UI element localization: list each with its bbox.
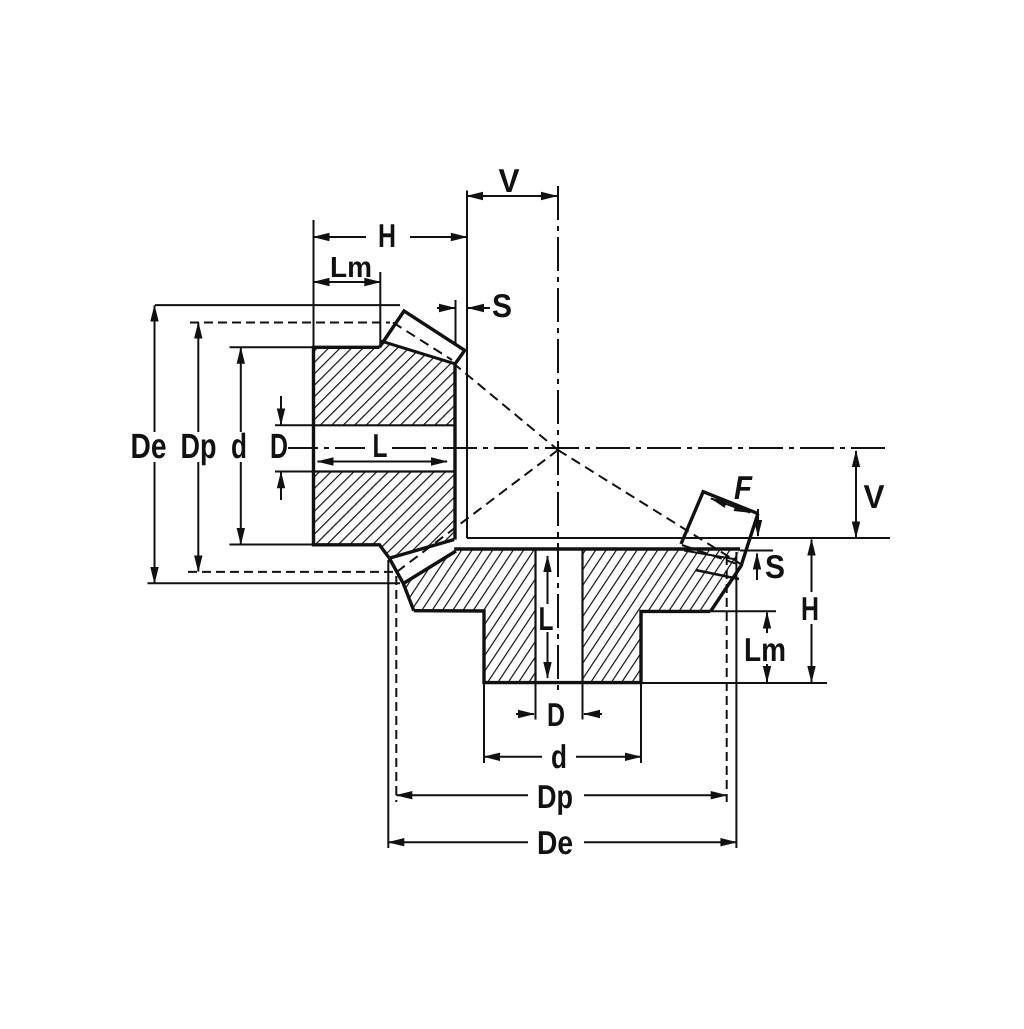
dimension D bottom arrows [516, 696, 602, 733]
pitch cone dashed line apex to SW [398, 450, 558, 571]
svg-text:S: S [492, 287, 512, 324]
extension lines d left [230, 346, 314, 348]
svg-text:L: L [539, 600, 554, 637]
gear hatched body [403, 549, 741, 683]
dimension d left [231, 348, 247, 544]
svg-text:Dp: Dp [537, 778, 573, 815]
dimension H top [314, 217, 467, 254]
dimension V right [856, 451, 885, 538]
extension lines D bottom [535, 683, 537, 720]
pinion hatched body [314, 341, 456, 558]
svg-text:V: V [499, 162, 520, 199]
extension line x467 [466, 191, 468, 539]
gear outline [414, 514, 758, 683]
dimension S right arrows [757, 509, 785, 585]
dimension Dp left [181, 323, 217, 572]
dimension Lm right [744, 613, 786, 683]
extension lines De left [155, 304, 400, 306]
pitch cone dashed line pinion tooth [393, 323, 452, 361]
extension lines Dp dashed left [190, 322, 390, 324]
extension lines D left [275, 424, 314, 426]
dimension De left [131, 306, 167, 584]
pitch cone dashed line apex to SE [558, 450, 747, 568]
extension lines d bottom [483, 683, 485, 763]
gear bore edges [536, 549, 583, 683]
svg-text:L: L [373, 427, 388, 464]
gear face extension right [740, 550, 773, 552]
dimension S top arrows [437, 287, 512, 324]
pinion outline [314, 311, 465, 558]
mesh zone gear tooth outline [389, 540, 456, 611]
pinion tooth root line [381, 341, 455, 364]
pitch cone dashed line NW to apex [453, 363, 558, 450]
dimension Dp bottom [396, 778, 726, 815]
svg-text:d: d [551, 738, 567, 775]
hub bottom extension right [641, 682, 827, 684]
svg-text:F: F [734, 469, 753, 506]
dimension F [711, 469, 753, 513]
dimension L gear bore [539, 556, 554, 678]
svg-text:D: D [547, 696, 565, 733]
gear rim underside extension right [711, 610, 776, 612]
svg-text:Lm: Lm [744, 631, 786, 668]
dimension V top [467, 162, 557, 199]
svg-text:V: V [864, 478, 885, 515]
extension line pinion back face x455.5 [455, 300, 457, 345]
svg-text:De: De [537, 824, 573, 861]
svg-text:H: H [378, 217, 396, 254]
dimension H right [801, 540, 819, 683]
svg-text:Lm: Lm [330, 252, 372, 284]
extension lines De bottom [387, 560, 389, 848]
dimension De bottom [388, 824, 736, 861]
vertical centerline (gear axis) [557, 186, 559, 694]
extension line pinion left x313.5 [313, 220, 315, 347]
horizontal centerline (pinion axis) [288, 447, 890, 449]
extension line Lm x380.3 [379, 272, 381, 346]
dimension d bottom [484, 738, 641, 775]
dimension Lm top [314, 252, 381, 284]
pinion bore edges [314, 425, 456, 471]
pitch dashed line in F tooth [682, 545, 740, 565]
gear F tooth outline [681, 492, 758, 544]
reference line y538 [467, 537, 890, 539]
svg-text:Dp: Dp [181, 427, 217, 466]
svg-text:De: De [131, 427, 167, 466]
gear tooth internal root lines [684, 551, 737, 560]
svg-text:D: D [270, 427, 288, 466]
svg-text:S: S [765, 548, 785, 585]
dimension D left arrows [270, 396, 288, 500]
svg-text:d: d [231, 427, 247, 466]
extension lines Dp bottom dashed [395, 576, 397, 802]
svg-text:H: H [801, 590, 819, 627]
dimension L pinion bore [318, 427, 448, 464]
